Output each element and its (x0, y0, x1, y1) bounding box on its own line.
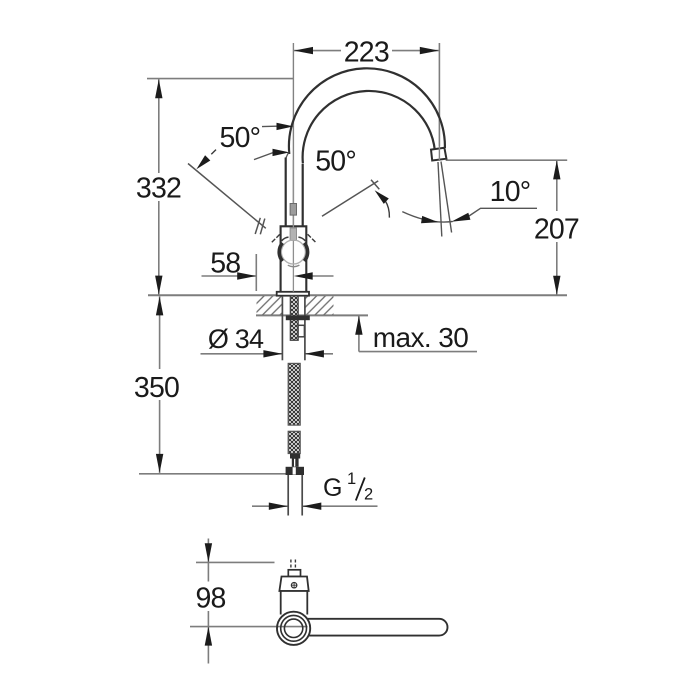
207 dim line lower (556, 242, 558, 295)
10 deg leader (469, 208, 537, 216)
svg-text:223: 223 (344, 37, 389, 69)
98 dim line lower (207, 611, 209, 627)
350 top arrow (156, 296, 163, 315)
10 deg line vertical (438, 162, 442, 237)
svg-text:2: 2 (364, 486, 373, 504)
G12 left arrow (269, 503, 288, 510)
223 right extension line (438, 43, 440, 146)
98 bottom reference line (190, 626, 311, 628)
base flange (277, 292, 309, 296)
350 dim line lower (159, 400, 161, 473)
207 bottom arrow (553, 276, 560, 295)
screw cross h (291, 584, 297, 586)
swivel dash right outer (312, 239, 315, 242)
swivel dash right inner (308, 234, 311, 237)
hose neck (292, 459, 299, 467)
98 dim stub below (207, 627, 209, 664)
hex nut highlight (293, 467, 296, 474)
hose collar (290, 454, 300, 459)
faucet body (281, 226, 307, 292)
swivel diagonal right (322, 181, 378, 216)
dia34 dim line left (201, 353, 283, 355)
pivot middle circle (281, 615, 307, 641)
spout nozzle tip (431, 148, 446, 161)
G12 dim line right (302, 505, 377, 507)
hose neck highlight (294, 459, 295, 467)
223 dim line left segment (294, 50, 341, 52)
connection pipe right (301, 475, 303, 516)
left diagonal tick 2 (260, 219, 265, 235)
centerline through body (292, 160, 294, 292)
right diagonal tick (371, 180, 379, 189)
swivel ball circle (281, 240, 305, 264)
ball top arc left (282, 237, 289, 241)
left swing arrow (194, 155, 211, 172)
50 deg arrow 2 (273, 149, 290, 156)
58 right arrow (294, 272, 313, 279)
handle stem hidden dash right (294, 560, 296, 571)
pivot inner circle (284, 619, 302, 637)
spout inner arc (303, 91, 436, 164)
207 top arrow (553, 160, 560, 179)
left swing arrow tail (211, 150, 216, 155)
handle stem nub (288, 570, 300, 577)
223 extension through nozzle (438, 146, 440, 161)
58 dim line right (294, 275, 334, 277)
swivel dash left inner (276, 234, 279, 237)
98 top reference line (196, 561, 275, 563)
mounting nut (286, 315, 310, 320)
ball left crescent (279, 243, 282, 261)
58 left arrow (237, 272, 256, 279)
deck hatching left of shank (257, 296, 283, 315)
svg-text:50°: 50° (220, 122, 261, 154)
handle stem hidden dash left (290, 560, 292, 571)
smile arc under ball (288, 265, 300, 267)
98 bottom arrow (205, 627, 212, 646)
hose step block (298, 325, 304, 337)
dia34 left arrow (263, 350, 282, 357)
207 top reference line (446, 159, 568, 161)
350 dim line upper (159, 296, 161, 369)
screw cross v (293, 582, 295, 588)
hex nut (286, 467, 304, 475)
98 dim line upper (207, 562, 209, 581)
98 dim stub above (207, 539, 209, 563)
223 dim line right segment (392, 50, 439, 52)
svg-text:max. 30: max. 30 (373, 322, 468, 353)
swivel diagonal left (188, 164, 266, 229)
svg-text:50°: 50° (315, 146, 356, 178)
58 dim line left (202, 275, 257, 277)
deck hatching right of shank (305, 296, 334, 315)
deck top line (148, 294, 567, 296)
332 bottom arrow (155, 276, 162, 295)
ball top arc right (298, 237, 305, 241)
max30 arrow (355, 316, 362, 335)
50 deg arrow 1 (277, 123, 294, 130)
spout outer arc (289, 68, 445, 154)
207 dim line upper (556, 160, 558, 211)
332 dim line upper (158, 79, 160, 173)
riser tube left edge (285, 158, 287, 226)
deck bottom line (256, 314, 368, 316)
223 right arrow (420, 47, 439, 54)
threaded rod (290, 296, 298, 341)
350 bottom arrow (156, 454, 163, 473)
shank wall right (304, 296, 306, 360)
svg-text:207: 207 (534, 214, 579, 246)
98 top arrow (205, 543, 212, 562)
left diagonal tick 1 (255, 218, 260, 234)
handle hub body (281, 591, 308, 615)
332 top reference line (147, 78, 293, 80)
cartridge stem mark (290, 228, 296, 240)
braided hose lower (288, 431, 300, 453)
max30 dim line (358, 316, 360, 352)
G12 right arrow (302, 503, 321, 510)
svg-text:10°: 10° (490, 176, 531, 208)
10 deg arc left arrow (421, 216, 439, 226)
332 top arrow (155, 79, 162, 98)
svg-text:1: 1 (347, 470, 356, 488)
ball right crescent (304, 243, 307, 261)
332 dim line lower (158, 201, 160, 295)
braided hose upper (288, 363, 300, 425)
dia34 dim line right (305, 353, 333, 355)
50 deg leader 2 (254, 153, 273, 160)
connection pipe left (287, 475, 289, 516)
G12 dim line left (252, 505, 288, 507)
swivel dash left outer (272, 239, 275, 242)
handle set screw (291, 583, 296, 588)
riser tube right edge (302, 164, 304, 226)
10 deg line tilted (441, 162, 452, 233)
223 left arrow (294, 47, 313, 54)
shank wall left (281, 296, 283, 360)
lever arm (307, 619, 448, 636)
right swing arrow (372, 188, 389, 204)
dia34 right arrow (305, 350, 324, 357)
svg-text:Ø 34: Ø 34 (208, 324, 264, 354)
10 deg swing arc (402, 212, 452, 222)
svg-text:350: 350 (134, 372, 179, 404)
50 deg leader 1 (262, 125, 277, 127)
58 extension line (255, 254, 257, 291)
svg-text:332: 332 (136, 173, 181, 205)
right swing arrow tail (385, 201, 389, 218)
svg-text:58: 58 (210, 248, 240, 280)
spout left edge transition (286, 152, 289, 159)
pivot outer circle (277, 612, 310, 645)
10 deg arc right arrow (450, 213, 470, 226)
350 bottom reference line (139, 473, 287, 475)
svg-text:G: G (323, 474, 342, 502)
handle cap (279, 577, 308, 592)
aerator mark on tube (290, 204, 296, 216)
svg-text:98: 98 (195, 583, 225, 615)
faucet centerline / 223 left extension (292, 43, 294, 292)
max30 leader line (359, 351, 477, 353)
